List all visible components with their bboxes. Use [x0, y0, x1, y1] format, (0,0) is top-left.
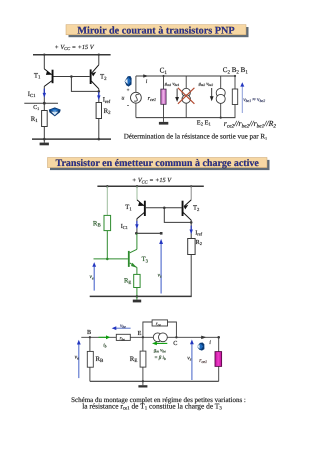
node dot T1 rail: [136, 185, 139, 188]
resistor rce2//rbe2//rbe1//R2: [232, 89, 237, 105]
node wire collector-vs: [136, 232, 161, 234]
node dot rail T2: [98, 54, 100, 56]
svg-text:ve: ve: [75, 355, 79, 361]
svg-text:i: i: [146, 79, 148, 85]
transistor T1: [44, 69, 53, 87]
svg-text:B: B: [87, 329, 91, 336]
title bar 1: [66, 25, 246, 35]
svg-text:vs: vs: [187, 356, 191, 362]
ground rail c3: [90, 295, 192, 297]
svg-text:E2 E1: E2 E1: [197, 119, 212, 126]
ground symbol 2: [163, 118, 165, 122]
node dot right column: [217, 336, 220, 339]
svg-text:= β ib: = β ib: [154, 355, 166, 361]
resistor RE: [134, 274, 140, 287]
wire T3 collector (green): [136, 233, 138, 249]
svg-text:C1: C1: [160, 67, 168, 76]
wire R2 to ground rail: [98, 119, 100, 140]
wire magenta resistor top: [218, 337, 220, 351]
svg-text:i: i: [209, 340, 211, 346]
node dot source2 bottom: [220, 117, 222, 119]
resistor rbe: [116, 334, 130, 340]
node dot T2 collector c3: [190, 221, 193, 224]
svg-text:RB: RB: [96, 356, 105, 364]
arrow ib (green): [99, 336, 107, 338]
svg-text:gm vbe: gm vbe: [154, 348, 166, 353]
svg-text:T1: T1: [34, 72, 41, 80]
wire T3 emitter to RE: [136, 267, 138, 274]
svg-text:R1: R1: [31, 116, 39, 124]
wire RB top (pale green): [106, 186, 108, 215]
transistor T3 (green NPN): [128, 249, 137, 267]
svg-text:+: +: [127, 89, 130, 94]
eye icon probe 2: [125, 76, 132, 87]
wire RB4 top: [89, 337, 91, 351]
svg-text:-: -: [127, 103, 129, 109]
svg-text:rce1: rce1: [148, 95, 157, 102]
arrow i c4: [201, 336, 206, 340]
ground symbol c4: [142, 381, 144, 385]
svg-text:RE: RE: [124, 278, 131, 286]
svg-text:rce1: rce1: [199, 358, 207, 364]
svg-text:+ VCC = +15 V: + VCC = +15 V: [55, 44, 95, 51]
arrow ve (blue, up): [93, 267, 95, 291]
base tie wire c3: [146, 207, 182, 209]
node dot B: [89, 336, 91, 338]
resistor RB c4: [87, 351, 93, 367]
wire R1 to ground rail: [43, 127, 45, 140]
node top rail: [136, 75, 236, 77]
resistor R2: [96, 103, 101, 119]
arrow Iref (blue): [97, 92, 100, 100]
node dot RB rail: [106, 185, 109, 188]
svg-text:C2 B2 B1: C2 B2 B1: [223, 66, 249, 75]
svg-text:T2: T2: [100, 74, 107, 82]
svg-text:rce: rce: [156, 322, 161, 327]
wire right resistor bottom: [234, 105, 236, 118]
svg-text:rce2//rbe2//rbe1//R2: rce2//rbe2//rbe1//R2: [224, 119, 277, 129]
resistor RB: [104, 215, 111, 230]
wire crossed source: [185, 76, 187, 118]
title bar 1 shadow: [69, 27, 249, 37]
current source gm1vbe1 (crossed): [182, 88, 190, 96]
wire rce1 bottom: [163, 104, 165, 117]
resistor rce1 (violet): [161, 89, 166, 104]
arrow vbe (blue, up): [241, 86, 243, 113]
svg-text:rbe: rbe: [120, 337, 126, 342]
arrow of source 2: [211, 88, 213, 97]
svg-text:gm1 vbe1: gm1 vbe1: [165, 81, 180, 87]
wire rce1 top: [163, 76, 165, 89]
svg-text:E: E: [138, 330, 142, 337]
node dot E: [142, 336, 144, 338]
wire base-collector tie c3: [164, 208, 191, 223]
wire RE4 bottom: [142, 367, 144, 381]
wire T1 emitter: [43, 55, 45, 69]
ground symbol c3: [136, 296, 138, 299]
ground symbol: [43, 139, 45, 143]
svg-text:ve: ve: [90, 274, 94, 280]
svg-text:C1: C1: [33, 105, 39, 111]
eye icon probe 1: [49, 107, 61, 116]
red cross X: [178, 88, 195, 104]
node dot right resistor top: [234, 75, 236, 77]
wire source 2: [220, 76, 222, 118]
wire T2 emitter c3: [190, 186, 192, 200]
wire right resistor top: [234, 76, 236, 89]
arrow IC1 c3 (blue): [135, 221, 138, 229]
node dot base line: [106, 258, 109, 261]
node VCC rail: [97, 185, 203, 187]
svg-text:+ VCC = +15 V: + VCC = +15 V: [132, 177, 172, 184]
node square right: [160, 232, 163, 235]
node dot C: [175, 336, 177, 338]
svg-text:la résistance rce1 de T1 const: la résistance rce1 de T1 constitue la ch…: [82, 401, 222, 411]
wire rce to C: [168, 322, 177, 337]
transistor T1 (c3): [137, 200, 146, 219]
arrow vbe (blue, left): [116, 327, 131, 329]
svg-text:RE: RE: [130, 356, 138, 364]
current source gm2vbe2: [216, 88, 225, 97]
base tie wire T1-T2: [54, 76, 90, 78]
wire T1 emitter (pale): [136, 186, 138, 200]
arrow Iref c3 (blue): [190, 226, 193, 235]
svg-text:C: C: [173, 340, 177, 347]
node dot rail RE: [142, 380, 144, 382]
svg-text:IC1: IC1: [121, 223, 128, 230]
wire T2 emitter: [98, 55, 100, 65]
svg-text:Détermination de la résistance: Détermination de la résistance de sortie…: [124, 132, 267, 140]
current source gm vbe (two circles): [153, 333, 162, 342]
resistor R2 c3: [188, 239, 195, 255]
node dot rail T1: [43, 54, 45, 56]
wire RE bottom: [136, 288, 138, 297]
wire RE4 top: [142, 337, 144, 351]
resistor RE c4: [140, 351, 146, 367]
wire C to right column: [167, 336, 218, 338]
node bottom rail: [136, 117, 236, 119]
eye icon probe 3: [197, 343, 204, 351]
transistor T2: [90, 65, 99, 89]
arrow vs c4 (blue up): [191, 344, 193, 380]
arrow i on top rail: [143, 74, 149, 77]
node dot T2 collector: [98, 90, 101, 93]
svg-text:T2: T2: [193, 205, 200, 213]
wire T2 collector down c3: [190, 220, 192, 239]
bottom rail c4: [90, 380, 219, 382]
svg-text:T1: T1: [125, 204, 132, 212]
node dot base: [70, 75, 73, 78]
node dot base c3: [163, 207, 166, 210]
wire source top: [135, 76, 137, 92]
arrow ve c4 (blue up): [78, 344, 80, 378]
wire C1 to R1: [43, 103, 45, 110]
svg-text:R2: R2: [104, 108, 112, 116]
svg-text:Iref: Iref: [195, 229, 202, 236]
title bar 2 shadow: [50, 160, 270, 170]
node dot rail R2: [98, 138, 101, 141]
node C1 wire: [24, 102, 58, 104]
svg-text:R2: R2: [196, 239, 202, 246]
wire T1 collector down: [136, 219, 138, 234]
base wire T3 (green): [94, 258, 128, 260]
wire base to collector tie: [71, 77, 98, 92]
node VCC rail top: [33, 54, 111, 56]
wire source bottom: [135, 103, 137, 118]
node dot left: [135, 232, 138, 235]
node dot T2 rail: [190, 185, 192, 187]
arrow vs (blue, up): [160, 244, 162, 294]
svg-text:u: u: [122, 96, 125, 102]
wire RB4 bottom: [89, 367, 91, 381]
resistor rce: [152, 320, 167, 326]
wire T2 collector down: [98, 89, 100, 103]
green arrow of source: [156, 342, 167, 344]
wire RB bottom: [106, 231, 108, 259]
svg-text:vbe1 ≈ vbe2: vbe1 ≈ vbe2: [243, 97, 265, 103]
resistor rce1 (magenta): [215, 352, 222, 367]
transistor T2 (c3): [182, 200, 192, 220]
svg-text:IC1: IC1: [28, 91, 36, 99]
arrow IC1 (blue): [43, 89, 46, 98]
title bar 2: [48, 158, 268, 168]
node dot C1: [162, 75, 164, 77]
ground rail bottom: [32, 138, 111, 140]
node dot RE rail: [136, 295, 139, 298]
svg-text:gm2 vbe2: gm2 vbe2: [199, 81, 214, 87]
svg-text:Iref: Iref: [103, 97, 111, 105]
wire rce bypass: [143, 322, 152, 337]
wire R2 bottom c3: [190, 255, 192, 297]
AC source u: [131, 92, 142, 103]
svg-text:T3: T3: [142, 256, 149, 264]
node B wire left stub: [81, 336, 116, 338]
wire rbe to E: [130, 336, 153, 338]
svg-text:Miroir de courant à transistor: Miroir de courant à transistors PNP: [77, 25, 234, 36]
svg-text:RB: RB: [93, 220, 102, 228]
resistor R1: [42, 111, 48, 127]
node dot rail R1: [43, 138, 46, 141]
svg-text:Transistor en émetteur commun: Transistor en émetteur commun à charge a…: [56, 158, 260, 169]
wire magenta resistor bottom: [218, 366, 220, 381]
arrow of source 1: [176, 89, 178, 98]
svg-text:vbe: vbe: [120, 323, 126, 329]
node dot C1: [43, 102, 46, 105]
svg-text:ib: ib: [103, 342, 106, 348]
wire T1 collector down: [43, 86, 45, 103]
